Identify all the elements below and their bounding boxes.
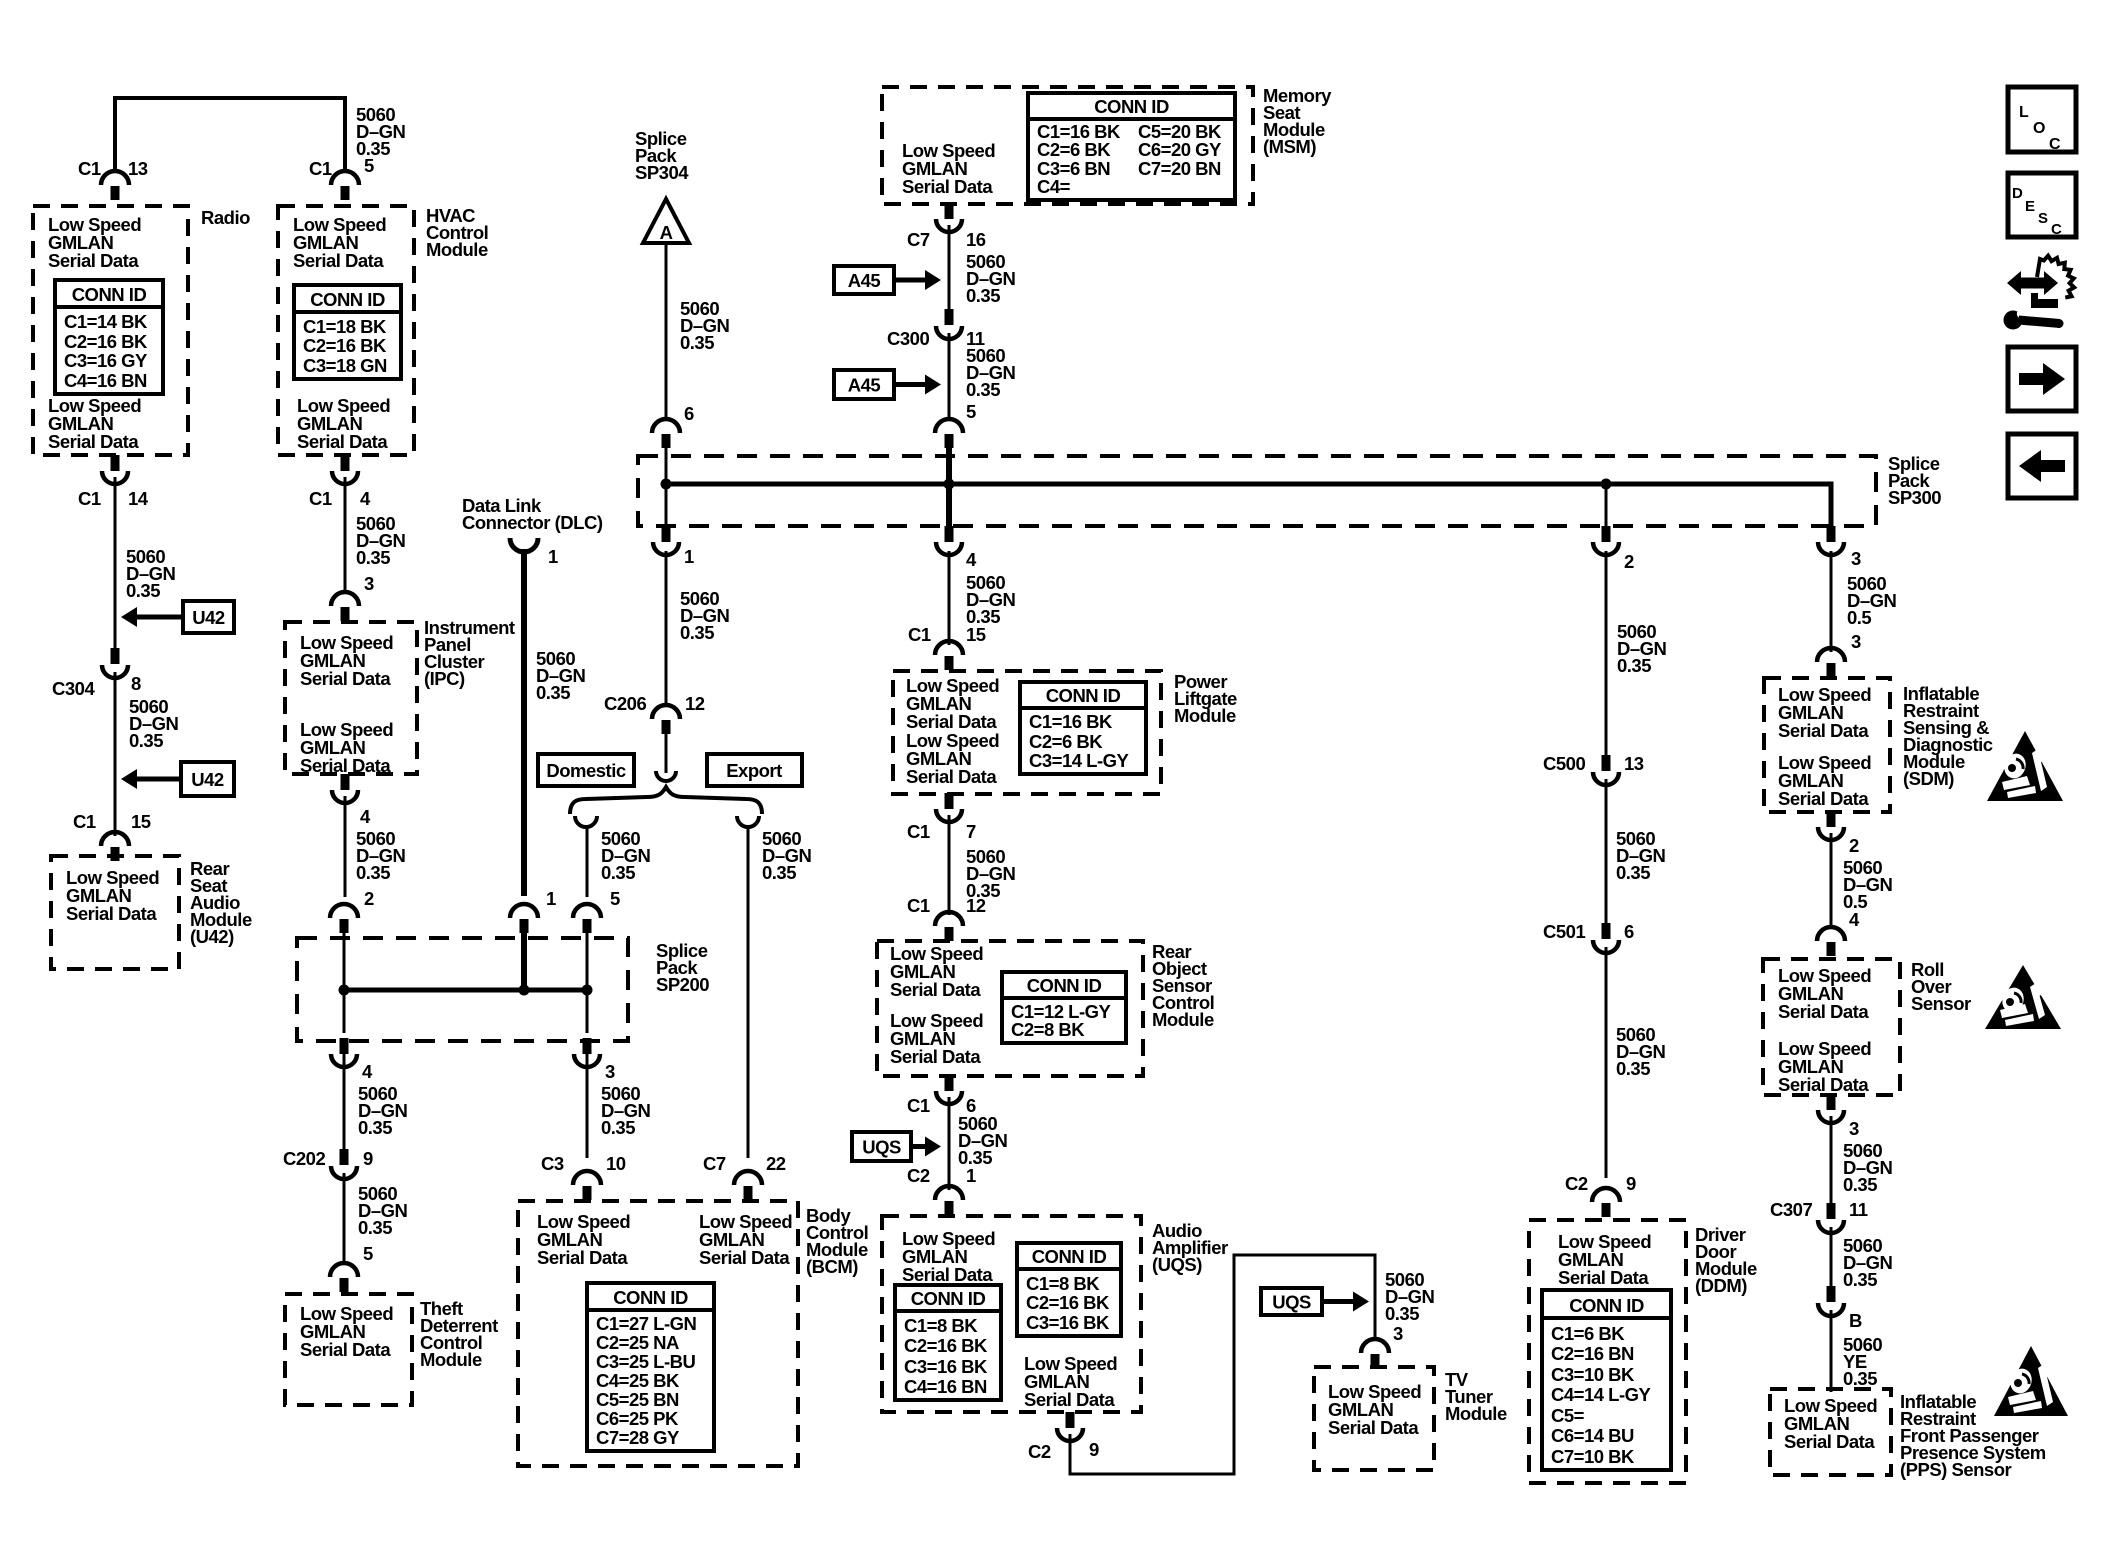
svg-text:4: 4 — [966, 549, 977, 570]
wire C501 to DDM — [1605, 947, 1608, 1178]
module Rear Seat Audio Module (U42) outline — [51, 856, 179, 969]
icon arrow left box — [2008, 434, 2076, 498]
svg-text:5: 5 — [363, 1243, 373, 1264]
svg-text:TheftDeterrentControlModule: TheftDeterrentControlModule — [420, 1298, 498, 1370]
wire PLM to ROS — [948, 815, 951, 915]
svg-text:Low SpeedGMLANSerial Data: Low SpeedGMLANSerial Data — [300, 719, 393, 776]
svg-text:13: 13 — [128, 158, 148, 179]
svg-text:5060D–GN0.35: 5060D–GN0.35 — [966, 572, 1016, 627]
connector hook Export branch — [737, 816, 759, 827]
svg-text:C501: C501 — [1543, 921, 1585, 942]
svg-text:Low SpeedGMLANSerial Data: Low SpeedGMLANSerial Data — [537, 1211, 630, 1268]
svg-text:C1: C1 — [907, 821, 930, 842]
module Memory Seat Module outline — [882, 87, 1253, 204]
svg-text:InstrumentPanelCluster(IPC): InstrumentPanelCluster(IPC) — [424, 617, 515, 689]
module Power Liftgate Module outline — [893, 671, 1161, 794]
svg-text:C7: C7 — [703, 1153, 726, 1174]
wire Roll Over Sensor to C307 — [1830, 1116, 1833, 1204]
icon jump-to-wiring (double arrow, outline, wrench) — [2004, 256, 2075, 330]
module PPS Sensor outline — [1770, 1389, 1891, 1475]
svg-text:B: B — [1849, 1310, 1862, 1331]
wire HVAC to IPC — [344, 477, 347, 593]
svg-text:C1: C1 — [908, 624, 931, 645]
svg-text:5060D–GN0.35: 5060D–GN0.35 — [356, 104, 406, 159]
svg-text:Low SpeedGMLANSerial Data: Low SpeedGMLANSerial Data — [902, 140, 995, 197]
icon arrow right box — [2008, 347, 2076, 411]
svg-text:12: 12 — [966, 895, 986, 916]
svg-text:Low SpeedGMLANSerial Data: Low SpeedGMLANSerial Data — [66, 867, 159, 924]
svg-text:Low SpeedGMLANSerial Data: Low SpeedGMLANSerial Data — [300, 632, 393, 689]
table CONN ID Audio Amplifier right — [1017, 1243, 1121, 1336]
svg-text:Low SpeedGMLANSerial Data: Low SpeedGMLANSerial Data — [300, 1303, 393, 1360]
variant box Domestic — [538, 754, 634, 786]
svg-text:4: 4 — [360, 806, 371, 827]
brace split Domestic/Export — [570, 787, 762, 814]
svg-text:SplicePackSP304: SplicePackSP304 — [635, 128, 689, 183]
svg-text:C1: C1 — [78, 158, 101, 179]
wire SP300 leg pin1 — [665, 484, 668, 530]
module Rear Object Sensor Control Module outline — [877, 941, 1143, 1076]
connector pin 3 into IPC — [331, 592, 359, 621]
svg-text:C1: C1 — [309, 488, 332, 509]
warning triangle (Roll Over) — [1985, 965, 2061, 1029]
svg-text:Low SpeedGMLANSerial Data: Low SpeedGMLANSerial Data — [890, 943, 983, 1000]
reference arrow A45 (lower) — [834, 370, 941, 399]
module Body Control Module outline — [518, 1201, 798, 1466]
svg-text:Low SpeedGMLANSerial Data: Low SpeedGMLANSerial Data — [1328, 1381, 1421, 1438]
svg-text:1: 1 — [548, 546, 558, 567]
wire SP200 to C202 — [343, 1054, 346, 1150]
svg-text:2: 2 — [364, 888, 374, 909]
connector pin 2 out of SP300 — [1593, 526, 1619, 555]
connector C1 pin 15 into Power Liftgate Module — [935, 641, 963, 670]
svg-text:8: 8 — [131, 673, 141, 694]
table CONN ID Radio — [55, 280, 163, 394]
connector C1 pin 12 into Rear Object Sensor Control Module — [935, 912, 963, 941]
svg-text:C1=27 L-GNC2=25 NAC3=25 L-BUC4: C1=27 L-GNC2=25 NAC3=25 L-BUC4=25 BKC5=2… — [596, 1313, 697, 1448]
svg-text:C202: C202 — [283, 1148, 325, 1169]
svg-text:Low SpeedGMLANSerial Data: Low SpeedGMLANSerial Data — [890, 1010, 983, 1067]
svg-text:C1: C1 — [907, 895, 930, 916]
svg-text:A45: A45 — [848, 375, 881, 396]
wire SP304 to SP300 — [665, 243, 668, 419]
svg-text:10: 10 — [606, 1153, 626, 1174]
svg-text:C1: C1 — [73, 811, 96, 832]
svg-text:C206: C206 — [604, 693, 646, 714]
svg-text:CONN ID: CONN ID — [310, 289, 385, 310]
svg-text:16: 16 — [966, 229, 986, 250]
wire C206 to brace — [665, 733, 668, 773]
svg-text:2: 2 — [1624, 551, 1634, 572]
wire MSM to C300 — [948, 225, 951, 311]
svg-text:1: 1 — [684, 546, 694, 567]
svg-text:D: D — [2012, 185, 2023, 202]
svg-text:3: 3 — [364, 573, 374, 594]
svg-text:O: O — [2033, 120, 2045, 137]
svg-text:UQS: UQS — [1272, 1292, 1311, 1313]
wire SP300 entry center — [946, 434, 952, 484]
wire SP300 bus — [666, 484, 1831, 526]
module Instrument Panel Cluster outline — [285, 622, 417, 774]
connector C300 pin 11 — [936, 309, 962, 339]
svg-text:9: 9 — [363, 1148, 373, 1169]
svg-text:13: 13 — [1624, 753, 1644, 774]
connector C307 pin 11 — [1818, 1203, 1844, 1233]
svg-text:Low SpeedGMLANSerial Data: Low SpeedGMLANSerial Data — [297, 395, 390, 452]
svg-text:4: 4 — [362, 1061, 373, 1082]
svg-text:5060D–GN0.35: 5060D–GN0.35 — [601, 828, 651, 883]
splice pack SP200 outline — [297, 938, 628, 1041]
table CONN ID BCM — [587, 1283, 714, 1451]
svg-text:Low SpeedGMLANSerial Data: Low SpeedGMLANSerial Data — [902, 1228, 995, 1285]
wire SP300 leg pin4 — [946, 484, 952, 530]
icon LOC box — [2008, 87, 2076, 153]
icon DESC box — [2008, 173, 2076, 238]
connector pin 1 out of SP300 — [653, 526, 679, 555]
svg-text:5060D–GN0.35: 5060D–GN0.35 — [1616, 1024, 1666, 1079]
module Driver Door Module outline — [1529, 1220, 1686, 1483]
svg-text:Low SpeedGMLANSerial Data: Low SpeedGMLANSerial Data — [1778, 684, 1871, 741]
svg-text:C1=12 L-GYC2=8 BK: C1=12 L-GYC2=8 BK — [1011, 1001, 1112, 1040]
svg-text:22: 22 — [766, 1153, 786, 1174]
svg-text:Low SpeedGMLANSerial Data: Low SpeedGMLANSerial Data — [1024, 1353, 1117, 1410]
svg-text:C1=14 BKC2=16 BKC3=16 GYC4=16: C1=14 BKC2=16 BKC3=16 GYC4=16 BN — [64, 311, 148, 391]
svg-text:C1=16 BKC2=6 BKC3=14 L-GY: C1=16 BKC2=6 BKC3=14 L-GY — [1029, 711, 1130, 771]
svg-text:C2: C2 — [1565, 1173, 1588, 1194]
svg-text:C1=8 BKC2=16 BKC3=16 BKC4=16 B: C1=8 BKC2=16 BKC3=16 BKC4=16 BN — [904, 1315, 988, 1397]
svg-text:15: 15 — [131, 811, 151, 832]
connector C3 pin 10 into BCM — [573, 1171, 601, 1200]
wire DLC to SP200 (thick) — [521, 549, 527, 896]
wire IPC to SP200 — [344, 796, 347, 897]
svg-text:L: L — [2019, 104, 2029, 121]
svg-text:Low SpeedGMLANSerial Data: Low SpeedGMLANSerial Data — [48, 214, 141, 271]
wire Domestic branch to SP200 — [586, 826, 589, 897]
svg-text:Domestic: Domestic — [546, 760, 625, 781]
svg-text:Low SpeedGMLANSerial Data: Low SpeedGMLANSerial Data — [293, 214, 386, 271]
junction SP200 left — [339, 985, 350, 996]
svg-text:5060D–GN0.35: 5060D–GN0.35 — [680, 298, 730, 353]
module Radio outline — [33, 206, 188, 455]
svg-text:5060D–GN0.35: 5060D–GN0.35 — [966, 251, 1016, 306]
svg-text:UQS: UQS — [862, 1137, 901, 1158]
connector C1 pin 14 out of Radio — [102, 455, 128, 484]
svg-text:MemorySeatModule(MSM): MemorySeatModule(MSM) — [1263, 85, 1332, 157]
wire SP300 to C500 — [1605, 551, 1608, 756]
module Roll Over Sensor outline — [1763, 959, 1900, 1095]
module Theft Deterrent Control Module outline — [285, 1294, 412, 1405]
reference arrow U42 (upper) — [121, 601, 234, 633]
wire SP200 leg pin4 — [343, 990, 346, 1033]
table CONN ID Audio Amplifier left — [895, 1285, 1001, 1400]
connector C2 pin 9 into Driver Door Module — [1592, 1188, 1620, 1217]
svg-text:CONN ID: CONN ID — [613, 1287, 688, 1308]
junction SP300 at pin6 — [661, 479, 672, 490]
svg-text:RearObjectSensorControlModule: RearObjectSensorControlModule — [1152, 941, 1214, 1030]
svg-text:C1=16 BKC2=6 BKC3=6 BNC4=: C1=16 BKC2=6 BKC3=6 BNC4= — [1037, 121, 1121, 197]
svg-text:4: 4 — [360, 488, 371, 509]
svg-text:Low SpeedGMLANSerial Data: Low SpeedGMLANSerial Data — [48, 395, 141, 452]
svg-text:DriverDoorModule(DDM): DriverDoorModule(DDM) — [1695, 1224, 1757, 1296]
connector pin 2 out of SDM — [1818, 811, 1844, 840]
connector C206 pin 12 — [652, 705, 680, 734]
svg-text:5060D–GN0.35: 5060D–GN0.35 — [966, 345, 1016, 400]
wire to PPS sensor — [1830, 1310, 1833, 1392]
table CONN ID ROS — [1002, 972, 1126, 1043]
svg-text:C300: C300 — [887, 328, 929, 349]
connector pin 2 into SP200 — [330, 904, 358, 933]
connector C500 pin 13 — [1593, 755, 1619, 785]
svg-text:6: 6 — [1624, 921, 1634, 942]
connector C202 pin 9 — [331, 1149, 357, 1179]
connector C501 pin 6 — [1593, 923, 1619, 953]
svg-text:C1=6 BKC2=16 BNC3=10 BKC4=14 L: C1=6 BKC2=16 BNC3=10 BKC4=14 L-GYC5=C6=1… — [1551, 1323, 1652, 1467]
svg-text:PowerLiftgateModule: PowerLiftgateModule — [1174, 671, 1237, 726]
table CONN ID PLM — [1020, 682, 1146, 774]
wire SP300 to SDM — [1830, 551, 1833, 652]
table CONN ID HVAC — [294, 285, 401, 379]
svg-text:3: 3 — [605, 1061, 615, 1082]
svg-text:5060D–GN0.5: 5060D–GN0.5 — [1847, 573, 1897, 628]
wire Audio Amplifier to TV Tuner — [1070, 1255, 1375, 1474]
svg-text:5060D–GN0.35: 5060D–GN0.35 — [762, 828, 812, 883]
svg-text:S: S — [2038, 210, 2048, 227]
svg-text:5060D–GN0.35: 5060D–GN0.35 — [129, 696, 179, 751]
svg-text:12: 12 — [685, 693, 705, 714]
wire C300 to SP300 — [948, 333, 951, 419]
svg-text:5: 5 — [610, 888, 620, 909]
svg-text:RearSeatAudioModule(U42): RearSeatAudioModule(U42) — [190, 858, 252, 947]
connector DLC cup — [510, 538, 538, 552]
svg-text:C: C — [2051, 221, 2062, 238]
svg-text:5: 5 — [966, 401, 976, 422]
svg-text:CONN ID: CONN ID — [911, 1288, 986, 1309]
connector pin 5 into Theft Deterrent Control Module — [330, 1263, 358, 1292]
svg-text:CONN ID: CONN ID — [1094, 96, 1169, 117]
svg-text:SplicePackSP300: SplicePackSP300 — [1888, 453, 1941, 508]
svg-text:3: 3 — [1393, 1323, 1403, 1344]
svg-text:5060D–GN0.35: 5060D–GN0.35 — [356, 828, 406, 883]
connector cup below C206 — [656, 771, 676, 781]
svg-text:5060YE0.35: 5060YE0.35 — [1843, 1334, 1882, 1389]
wire SP300 to PLM — [948, 551, 951, 645]
svg-text:SplicePackSP200: SplicePackSP200 — [656, 940, 709, 995]
variant box Export — [707, 754, 802, 786]
svg-text:14: 14 — [128, 488, 149, 509]
svg-text:C307: C307 — [1770, 1199, 1812, 1220]
svg-text:C5=20 BKC6=20 GYC7=20 BN: C5=20 BKC6=20 GYC7=20 BN — [1138, 121, 1222, 179]
svg-text:3: 3 — [1849, 1118, 1859, 1139]
svg-text:C500: C500 — [1543, 753, 1585, 774]
svg-text:C1: C1 — [78, 488, 101, 509]
svg-text:5060D–GN0.35: 5060D–GN0.35 — [1616, 828, 1666, 883]
module Audio Amplifier outline — [882, 1216, 1141, 1412]
connector hook Domestic branch — [575, 816, 597, 827]
connector C1 pin 7 out of PLM — [936, 793, 962, 822]
svg-text:5060D–GN0.5: 5060D–GN0.5 — [1843, 857, 1893, 912]
svg-text:C1: C1 — [907, 1095, 930, 1116]
wire Radio C1-13 to HVAC C1-5 top link — [115, 98, 345, 172]
svg-text:A45: A45 — [848, 270, 881, 291]
svg-text:5060D–GN0.35: 5060D–GN0.35 — [966, 846, 1016, 901]
svg-text:15: 15 — [966, 624, 986, 645]
connector pin 4 into Roll Over Sensor — [1817, 927, 1845, 956]
svg-text:CONN ID: CONN ID — [1046, 685, 1121, 706]
svg-text:5060D–GN0.35: 5060D–GN0.35 — [601, 1083, 651, 1138]
svg-text:5060D–GN0.35: 5060D–GN0.35 — [1385, 1269, 1435, 1324]
connector pin 3 out of SP300 — [1818, 526, 1844, 555]
svg-text:Low SpeedGMLANSerial Data: Low SpeedGMLANSerial Data — [699, 1211, 792, 1268]
svg-text:C1=8 BKC2=16 BKC3=16 BK: C1=8 BKC2=16 BKC3=16 BK — [1026, 1273, 1110, 1333]
connector pin 4 out of SP300 — [936, 526, 962, 555]
connector pin 3 out of SP200 — [574, 1038, 600, 1067]
svg-text:5060D–GN0.35: 5060D–GN0.35 — [1843, 1140, 1893, 1195]
svg-text:C2: C2 — [1028, 1441, 1051, 1462]
svg-text:Low SpeedGMLANSerial Data: Low SpeedGMLANSerial Data — [1778, 965, 1871, 1022]
svg-text:C2: C2 — [907, 1165, 930, 1186]
module TV Tuner Module outline — [1314, 1367, 1434, 1470]
svg-text:5060D–GN0.35: 5060D–GN0.35 — [680, 588, 730, 643]
svg-text:7: 7 — [966, 821, 976, 842]
svg-text:HVACControlModule: HVACControlModule — [426, 205, 488, 260]
wire Radio to C304 — [114, 477, 117, 649]
junction SP200 right — [582, 985, 593, 996]
svg-text:Export: Export — [726, 760, 782, 781]
svg-text:Low SpeedGMLANSerial Data: Low SpeedGMLANSerial Data — [1778, 1038, 1871, 1095]
junction SP200 center — [519, 985, 530, 996]
wire ROS to Audio Amplifier — [948, 1097, 951, 1190]
svg-text:Data LinkConnector (DLC): Data LinkConnector (DLC) — [462, 495, 603, 533]
svg-text:Low SpeedGMLANSerial Data: Low SpeedGMLANSerial Data — [1784, 1395, 1877, 1452]
warning triangle (PPS) — [1994, 1346, 2068, 1416]
svg-text:5060D–GN0.35: 5060D–GN0.35 — [1843, 1235, 1893, 1290]
svg-text:5060D–GN0.35: 5060D–GN0.35 — [1617, 621, 1667, 676]
svg-text:Radio: Radio — [201, 207, 250, 228]
splice pack SP300 outline — [638, 456, 1876, 526]
connector C1 pin 4 out of HVAC — [332, 455, 358, 484]
svg-text:3: 3 — [1851, 631, 1861, 652]
svg-text:5: 5 — [364, 155, 374, 176]
wire SP200 internal left vertical — [343, 920, 346, 990]
svg-text:1: 1 — [546, 888, 556, 909]
svg-text:3: 3 — [1851, 548, 1861, 569]
svg-text:1: 1 — [966, 1165, 976, 1186]
connector C2 pin 9 out of Audio Amplifier — [1057, 1412, 1083, 1441]
svg-text:C7: C7 — [907, 229, 930, 250]
wire Export branch to BCM C7 — [747, 826, 750, 1158]
svg-text:CONN ID: CONN ID — [1569, 1295, 1644, 1316]
reference arrow UQS (left) — [852, 1132, 941, 1161]
svg-text:11: 11 — [1849, 1199, 1868, 1220]
connector pin B inline — [1818, 1286, 1844, 1316]
warning triangle (SDM) — [1987, 731, 2063, 801]
wire C202 to Theft module — [343, 1173, 346, 1262]
svg-text:6: 6 — [684, 403, 694, 424]
svg-text:C3: C3 — [541, 1153, 564, 1174]
svg-text:C: C — [2049, 136, 2061, 153]
svg-text:9: 9 — [1089, 1439, 1099, 1460]
connector C1 pin 15 into Rear Seat Audio Module — [101, 832, 129, 861]
connector C7 pin 16 out of MSM — [936, 203, 962, 232]
wire SP200 internal center vertical (thick) — [521, 920, 527, 990]
svg-text:C1: C1 — [309, 158, 332, 179]
svg-text:U42: U42 — [191, 769, 224, 790]
wire SP300 to C206 — [665, 551, 668, 706]
svg-text:InflatableRestraintSensing &Di: InflatableRestraintSensing &DiagnosticMo… — [1903, 683, 1993, 789]
svg-text:5060D–GN0.35: 5060D–GN0.35 — [126, 546, 176, 601]
table CONN ID DDM — [1542, 1290, 1671, 1470]
wire C500 to C501 — [1605, 779, 1608, 924]
svg-text:Low SpeedGMLANSerial Data: Low SpeedGMLANSerial Data — [1778, 752, 1871, 809]
svg-text:4: 4 — [1849, 909, 1860, 930]
connector C1 pin 6 out of ROS — [936, 1075, 962, 1104]
reference arrow A45 (upper) — [834, 266, 941, 294]
svg-text:5060D–GN0.35: 5060D–GN0.35 — [536, 648, 586, 703]
svg-text:5060D–GN0.35: 5060D–GN0.35 — [358, 1083, 408, 1138]
svg-text:5060D–GN0.35: 5060D–GN0.35 — [356, 513, 406, 568]
connector pin 1 into SP200 — [510, 904, 538, 933]
connector C2 pin 1 into Audio Amplifier — [935, 1186, 963, 1215]
svg-text:Low SpeedGMLANSerial Data: Low SpeedGMLANSerial Data — [906, 675, 999, 732]
svg-text:Low SpeedGMLANSerial Data: Low SpeedGMLANSerial Data — [906, 730, 999, 787]
svg-text:CONN ID: CONN ID — [1027, 975, 1102, 996]
connector pin 3 out of Roll Over Sensor — [1818, 1094, 1844, 1123]
reference arrow U42 (lower) — [121, 762, 234, 796]
wire SP300 entry left — [665, 434, 668, 484]
svg-text:A: A — [660, 222, 673, 243]
svg-text:CONN ID: CONN ID — [72, 284, 147, 305]
svg-text:C304: C304 — [52, 678, 95, 699]
connector pin 3 into SDM — [1817, 648, 1845, 677]
wire SP200 internal right vertical — [586, 920, 589, 990]
connector pin 6 into SP300 — [652, 419, 680, 448]
svg-text:RollOverSensor: RollOverSensor — [1911, 959, 1971, 1014]
connector C304 pin 8 — [102, 648, 128, 678]
splice pack SP304 triangle A — [643, 199, 689, 243]
svg-text:C1=18 BKC2=16 BKC3=18 GN: C1=18 BKC2=16 BKC3=18 GN — [303, 316, 387, 376]
connector pin 4 out of SP200 — [331, 1038, 357, 1067]
connector C1 pin 13 into Radio — [101, 171, 129, 200]
module HVAC Control Module outline — [278, 206, 414, 455]
wire SP300 leg pin2 — [1605, 484, 1608, 530]
connector C1 pin 5 into HVAC — [331, 171, 359, 200]
module Inflatable Restraint SDM outline — [1764, 678, 1890, 812]
svg-text:AudioAmplifier(UQS): AudioAmplifier(UQS) — [1152, 1220, 1228, 1275]
svg-text:E: E — [2025, 198, 2035, 215]
svg-text:5060D–GN0.35: 5060D–GN0.35 — [958, 1113, 1008, 1168]
connector pin 5 into SP300 — [935, 419, 963, 448]
svg-text:5060D–GN0.35: 5060D–GN0.35 — [358, 1183, 408, 1238]
svg-text:U42: U42 — [192, 607, 225, 628]
junction SP300 at pin5 — [944, 479, 955, 490]
wire SP200 to BCM C3 — [586, 1054, 589, 1158]
connector pin 3 into TV Tuner Module — [1361, 1339, 1389, 1368]
svg-text:2: 2 — [1849, 835, 1859, 856]
wire SP200 leg pin3 — [586, 990, 589, 1033]
wire C307 to inline connector — [1830, 1227, 1833, 1287]
reference arrow UQS (right) — [1261, 1288, 1369, 1315]
svg-text:CONN ID: CONN ID — [1032, 1246, 1107, 1267]
connector C7 pin 22 into BCM — [734, 1171, 762, 1200]
svg-text:Low SpeedGMLANSerial Data: Low SpeedGMLANSerial Data — [1558, 1231, 1651, 1288]
svg-text:9: 9 — [1626, 1173, 1636, 1194]
connector pin 5 into SP200 — [573, 904, 601, 933]
svg-text:BodyControlModule(BCM): BodyControlModule(BCM) — [806, 1205, 868, 1277]
table CONN ID MSM — [1028, 93, 1235, 200]
svg-text:TVTunerModule: TVTunerModule — [1445, 1369, 1507, 1424]
wire C304 to Rear Seat Audio Module — [114, 672, 117, 836]
wire SP200 bus — [344, 988, 587, 993]
